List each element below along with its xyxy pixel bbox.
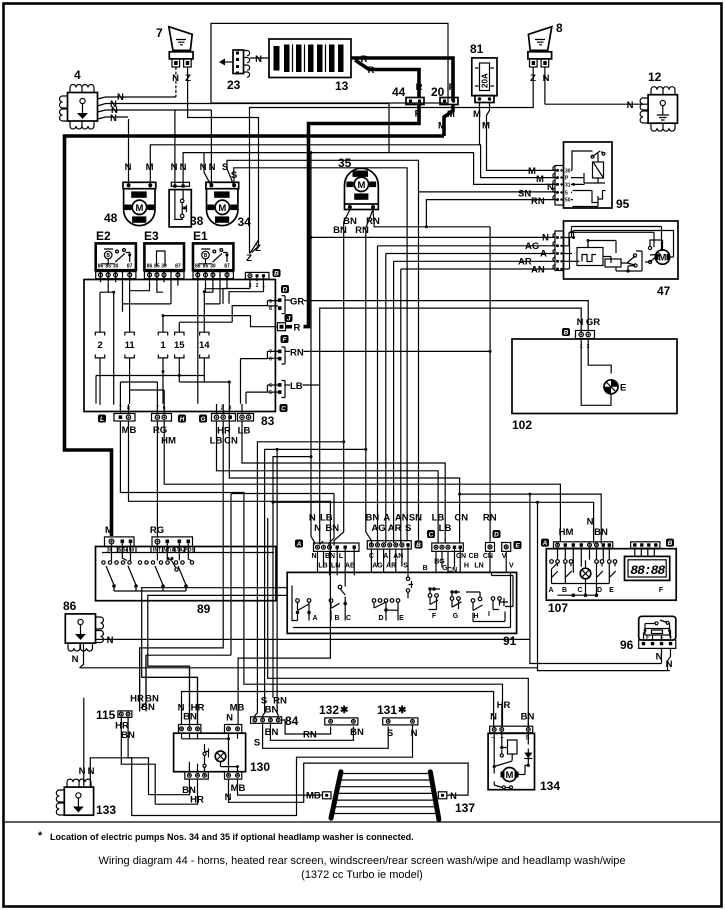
svg-text:RN: RN bbox=[531, 196, 545, 207]
svg-text:HM: HM bbox=[559, 527, 574, 538]
107 internals bbox=[550, 547, 617, 596]
svg-text:N: N bbox=[171, 162, 178, 173]
svg-text:RN: RN bbox=[355, 225, 369, 236]
91 connector C bbox=[427, 530, 463, 551]
91 connector D bbox=[486, 530, 501, 551]
svg-text:31: 31 bbox=[565, 183, 571, 189]
svg-text:S: S bbox=[403, 563, 408, 570]
svg-text:M: M bbox=[482, 121, 490, 132]
svg-text:34: 34 bbox=[238, 215, 252, 229]
wire A to 47 bbox=[386, 253, 555, 255]
wire BN-107 branch from CN vertical bbox=[460, 494, 602, 543]
svg-text:4: 4 bbox=[74, 68, 81, 82]
switch/clock unit 107 bbox=[541, 539, 676, 615]
wire RN-84 up x278.5 to y473? bbox=[277, 449, 278, 717]
svg-text:115: 115 bbox=[96, 708, 116, 722]
fuse box 83 bbox=[84, 280, 275, 429]
svg-text:CN: CN bbox=[454, 513, 468, 524]
svg-text:C: C bbox=[577, 587, 582, 594]
svg-text:N: N bbox=[311, 553, 316, 560]
svg-text:B: B bbox=[564, 329, 569, 336]
svg-text:AB: AB bbox=[345, 563, 355, 570]
pump motor 34 bbox=[206, 182, 251, 229]
svg-text:N: N bbox=[72, 654, 79, 665]
wire M from 81 left pin down to M bus bbox=[479, 103, 481, 145]
svg-text:CN: CN bbox=[456, 553, 466, 560]
svg-text:M: M bbox=[438, 121, 446, 132]
svg-text:S: S bbox=[222, 162, 228, 173]
svg-text:B: B bbox=[423, 565, 428, 572]
wire N from 86 bottom to x537.5 down (96 feed) bbox=[80, 643, 670, 671]
svg-text:R: R bbox=[416, 82, 423, 93]
wire horn7 Z down, right, down to connector B of 83 bbox=[188, 67, 259, 254]
svg-text:5: 5 bbox=[565, 191, 568, 197]
svg-text:48: 48 bbox=[104, 211, 118, 225]
svg-text:E: E bbox=[399, 615, 404, 622]
svg-text:A: A bbox=[542, 540, 548, 547]
svg-text:N: N bbox=[200, 162, 207, 173]
svg-text:86: 86 bbox=[195, 264, 201, 270]
svg-text:7: 7 bbox=[156, 26, 163, 40]
svg-text:M: M bbox=[135, 203, 143, 214]
svg-text:LB: LB bbox=[439, 523, 452, 534]
wire BN-134 bus y678.3 bbox=[268, 518, 529, 726]
fuse 14 bbox=[199, 292, 210, 382]
wire S bus y160.3 from 34 S pin right then down to 91-B S bbox=[227, 160, 556, 540]
headlamp washer pump 134 bbox=[488, 726, 560, 793]
svg-text:A: A bbox=[540, 249, 547, 260]
wire RN to 91-D bbox=[304, 351, 491, 541]
svg-text:J: J bbox=[287, 315, 291, 322]
svg-text:M: M bbox=[659, 253, 667, 264]
svg-text:B: B bbox=[562, 587, 567, 594]
svg-text:S: S bbox=[525, 736, 529, 742]
relay E1 bbox=[193, 229, 233, 270]
svg-text:6: 6 bbox=[269, 357, 272, 363]
svg-text:D: D bbox=[378, 615, 383, 622]
icon B bbox=[273, 269, 281, 277]
wire RN from 35 right pin to 95 pin 50 bbox=[373, 210, 490, 227]
verticals AG A AR AN down to 91-B bbox=[378, 246, 401, 543]
svg-text:M: M bbox=[506, 770, 514, 781]
svg-text:91: 91 bbox=[503, 634, 517, 648]
svg-text:RG: RG bbox=[153, 425, 167, 436]
thick bus battery feed: y136 from x64 to x444, left end down bbox=[65, 136, 445, 536]
icon F + RN pins (7,6) bbox=[269, 335, 290, 364]
svg-text:A: A bbox=[383, 513, 390, 524]
LB pins (6,5) + icon C bbox=[269, 381, 290, 413]
wire MB from 130 bottom to 137 bbox=[238, 779, 323, 795]
wire RG from 83 down to 89 bbox=[156, 421, 158, 537]
svg-text:133: 133 bbox=[96, 803, 116, 817]
svg-text:107: 107 bbox=[548, 601, 568, 615]
caption separator line bbox=[5, 821, 720, 823]
wire horn8 N down to N bus of 12 bbox=[544, 67, 546, 104]
91 connector B bbox=[367, 541, 422, 550]
svg-text:81: 81 bbox=[470, 42, 484, 56]
svg-text:D: D bbox=[283, 286, 288, 293]
svg-text:✱: ✱ bbox=[340, 705, 349, 716]
svg-text:132: 132 bbox=[319, 703, 339, 717]
heated rear window switch 130 bbox=[174, 725, 271, 780]
svg-text:+: + bbox=[669, 635, 673, 641]
svg-text:LN: LN bbox=[474, 563, 483, 570]
relay sockets on top edge of 83 bbox=[96, 272, 234, 279]
wire BN-35 to 84: left at y441.8 down x257.4 bbox=[255, 442, 344, 717]
svg-text:CN: CN bbox=[483, 553, 493, 560]
connector 23 bbox=[219, 50, 250, 92]
svg-text:85: 85 bbox=[203, 264, 209, 270]
svg-text:RN: RN bbox=[303, 730, 317, 741]
wire N loop from 130 bottom around to 137 right pin bbox=[229, 763, 469, 802]
svg-text:H: H bbox=[180, 416, 185, 423]
svg-text:102: 102 bbox=[512, 418, 532, 432]
svg-text:S: S bbox=[254, 738, 260, 749]
staircase to 115: HR bbox=[139, 653, 141, 712]
svg-text:S: S bbox=[231, 170, 237, 181]
connector B of 83 bbox=[245, 272, 269, 289]
svg-text:47: 47 bbox=[657, 284, 671, 298]
svg-text:E: E bbox=[609, 587, 614, 594]
svg-text:30: 30 bbox=[113, 264, 119, 270]
svg-text:CB: CB bbox=[469, 553, 479, 560]
svg-text:GR: GR bbox=[586, 317, 600, 328]
svg-text:50: 50 bbox=[129, 548, 135, 554]
svg-text:A: A bbox=[296, 541, 302, 548]
bottom connector L of 83 bbox=[98, 404, 135, 423]
wire RN from 35 right pin down to 91-B BN pin bbox=[366, 210, 373, 546]
svg-text:B: B bbox=[274, 270, 279, 277]
svg-text:130: 130 bbox=[250, 760, 270, 774]
svg-text:F: F bbox=[432, 613, 437, 620]
lamp unit 102 bbox=[512, 317, 677, 432]
thick wire R from 13 to connector 44 bbox=[355, 60, 419, 98]
svg-text:2: 2 bbox=[97, 340, 102, 351]
fuse box 13 bbox=[269, 39, 351, 93]
wire BN-115/91A: H493.5 from x231 to V334 bbox=[231, 493, 334, 495]
wire N to 47 pin1 bbox=[311, 236, 556, 238]
svg-text:N: N bbox=[656, 652, 663, 663]
svg-text:F: F bbox=[646, 635, 650, 641]
relay interrupter 89 bbox=[96, 537, 277, 616]
fuse 81 bbox=[470, 42, 497, 103]
connector 44 bbox=[392, 85, 424, 105]
thick wire R below 44 down to thick bus bbox=[417, 105, 421, 123]
107 digital clock bbox=[625, 548, 670, 594]
svg-text:CN: CN bbox=[224, 436, 238, 447]
wire S from 84 down to 131 left pin bbox=[263, 723, 389, 748]
switch 38 bbox=[169, 182, 204, 228]
svg-text:D: D bbox=[597, 587, 602, 594]
svg-text:✱: ✱ bbox=[398, 705, 407, 716]
svg-text:50: 50 bbox=[565, 198, 571, 204]
svg-text:1: 1 bbox=[160, 340, 166, 351]
svg-text:L: L bbox=[339, 553, 344, 560]
wire N from bus y110 down at x211.4 to 34 left pin bbox=[210, 110, 212, 186]
svg-text:R: R bbox=[294, 323, 301, 334]
svg-text:AN: AN bbox=[531, 265, 545, 276]
svg-text:8: 8 bbox=[269, 306, 272, 312]
svg-text:M: M bbox=[105, 525, 113, 536]
svg-text:96: 96 bbox=[620, 638, 634, 652]
svg-text:N: N bbox=[117, 92, 124, 103]
wire MB from 83: down, right, down to 130 MB top bbox=[129, 421, 331, 725]
wire N from 12 to horn 8 bbox=[545, 103, 648, 105]
svg-text:SN: SN bbox=[518, 189, 531, 200]
ground connector 4 bbox=[60, 68, 98, 129]
wire N bus to 130/134: y691.5 bbox=[182, 692, 494, 727]
svg-text:N: N bbox=[209, 162, 216, 173]
svg-text:87: 87 bbox=[175, 264, 181, 270]
svg-text:5: 5 bbox=[269, 390, 272, 396]
svg-text:N: N bbox=[411, 728, 418, 739]
svg-text:HR: HR bbox=[190, 795, 204, 806]
connector 132 bbox=[319, 703, 358, 725]
wire AN to 47 bbox=[401, 268, 555, 270]
svg-text:BN: BN bbox=[594, 527, 608, 538]
svg-text:BN: BN bbox=[333, 225, 347, 236]
svg-text:Z: Z bbox=[246, 253, 252, 264]
svg-text:N: N bbox=[110, 113, 117, 124]
svg-text:B: B bbox=[668, 540, 673, 547]
svg-text:M: M bbox=[536, 174, 544, 185]
svg-text:RN: RN bbox=[290, 348, 304, 359]
wire HR from 83 straight down then staircase to 115 bbox=[140, 421, 224, 711]
ground connector 133 bbox=[56, 779, 116, 817]
svg-text:N: N bbox=[125, 162, 132, 173]
svg-text:BN: BN bbox=[325, 523, 339, 534]
svg-text:N: N bbox=[450, 791, 457, 802]
svg-text:85: 85 bbox=[154, 264, 160, 270]
enclosing box around 23 and 13 bbox=[211, 23, 448, 103]
wire LB2 from 83 down right down to 91-C bbox=[242, 421, 445, 544]
wire M from 81 right pin down to 95 pin 30 bbox=[487, 103, 557, 171]
svg-text:I: I bbox=[488, 611, 490, 618]
svg-text:AG: AG bbox=[525, 241, 539, 252]
svg-text:C: C bbox=[346, 615, 351, 622]
svg-text:15: 15 bbox=[174, 340, 185, 351]
svg-text:M: M bbox=[447, 109, 455, 120]
91 connector E bbox=[502, 541, 522, 551]
svg-text:13: 13 bbox=[335, 79, 349, 93]
svg-text:N: N bbox=[226, 713, 233, 724]
svg-text:A: A bbox=[548, 587, 553, 594]
svg-text:R: R bbox=[368, 65, 375, 76]
svg-text:137: 137 bbox=[455, 801, 475, 815]
pump motor 35 bbox=[338, 156, 378, 210]
svg-text:GR: GR bbox=[290, 297, 304, 308]
icon G bbox=[199, 415, 207, 423]
svg-text:23: 23 bbox=[227, 78, 241, 92]
svg-text:LB: LB bbox=[320, 513, 333, 524]
wires from 4 (N x4) bbox=[98, 92, 390, 124]
svg-text:M: M bbox=[146, 162, 154, 173]
wiper motor unit 47 bbox=[553, 221, 678, 298]
svg-text:S: S bbox=[387, 728, 393, 739]
wire S bus y167.8 from 34 to x497.5 down right to 95 pin 5 (SN) bbox=[234, 168, 407, 541]
svg-text:N: N bbox=[309, 513, 316, 524]
wire from 83 L pin7: down right down to y684.2 bus to 134 HR bbox=[120, 421, 502, 726]
svg-text:RN: RN bbox=[483, 513, 497, 524]
svg-text:−: − bbox=[660, 635, 664, 641]
wire RN-35 to 84: down x365.8, left y449.4, down x264.6 bbox=[263, 449, 366, 717]
115 bottom wires joining 130 left wires bbox=[121, 717, 197, 804]
svg-text:BN: BN bbox=[350, 727, 364, 738]
svg-text:8: 8 bbox=[556, 21, 563, 35]
connector 84 bbox=[251, 714, 299, 728]
svg-text:Wiring diagram 44 - horns, hea: Wiring diagram 44 - horns, heated rear s… bbox=[98, 855, 625, 867]
svg-text:30: 30 bbox=[161, 264, 167, 270]
ground connector 12 bbox=[640, 70, 677, 131]
svg-text:S: S bbox=[405, 523, 411, 534]
wire AR to 47 bbox=[394, 260, 555, 262]
wire x319.7 down to 91-A (from 102-N corner) bbox=[320, 541, 324, 545]
wire N net: V311 H456.6 V273 with branches to 107-N and 133-N bbox=[311, 153, 315, 545]
wire N vertical x389 from y103.5 down to N bus bbox=[388, 104, 390, 153]
svg-text:N: N bbox=[627, 100, 634, 111]
ground connector 86 bbox=[63, 599, 104, 651]
svg-text:G: G bbox=[453, 613, 459, 620]
svg-text:E2: E2 bbox=[96, 229, 111, 243]
svg-text:N: N bbox=[542, 233, 549, 244]
svg-text:*: * bbox=[38, 830, 43, 842]
svg-text:G: G bbox=[200, 416, 205, 423]
wire HM from 83: down, right, down to 107-A bbox=[164, 421, 560, 542]
svg-text:E: E bbox=[515, 542, 520, 549]
svg-text:88:88: 88:88 bbox=[630, 563, 665, 578]
svg-text:LB: LB bbox=[238, 426, 251, 437]
svg-text:87: 87 bbox=[127, 264, 133, 270]
svg-text:86: 86 bbox=[147, 264, 153, 270]
svg-text:POS: POS bbox=[184, 548, 195, 554]
fuse 11 bbox=[125, 282, 136, 404]
thick wire R from 13 right to connector 20 bbox=[351, 58, 453, 101]
wire vertical x537.5 from N bus down to 86-N bus bbox=[537, 502, 539, 668]
svg-text:B: B bbox=[204, 253, 208, 259]
wire N from 131 zigzag to 133 bbox=[90, 725, 412, 816]
svg-text:2: 2 bbox=[256, 283, 259, 289]
svg-text:84: 84 bbox=[285, 714, 299, 728]
svg-text:RG: RG bbox=[150, 525, 164, 536]
wire horn8 Z down, left to x249.5 and down to B connector bbox=[250, 67, 534, 254]
pump motor 48 bbox=[104, 182, 156, 225]
svg-text:C: C bbox=[281, 405, 286, 412]
svg-text:C: C bbox=[429, 531, 434, 538]
svg-text:44: 44 bbox=[392, 85, 406, 99]
130 top BN/HR feed wires bbox=[148, 666, 190, 726]
thick wire M below 20 joining thick bus bbox=[444, 105, 453, 137]
svg-text:M: M bbox=[473, 109, 481, 120]
wire N from N-bus y152.6 down at x204 diag to 34 pin bbox=[204, 153, 211, 186]
horn 8 bbox=[528, 21, 563, 84]
svg-text:BN: BN bbox=[521, 712, 535, 723]
wire corner x319.7 y308 right to 102 B pin1 and down to 91-A bbox=[320, 308, 582, 544]
bottom connector G pins (2,3) HR LB CN bbox=[212, 404, 236, 421]
svg-text:86: 86 bbox=[98, 264, 104, 270]
svg-text:N: N bbox=[107, 635, 114, 646]
svg-text:AR: AR bbox=[386, 563, 396, 570]
fuse 15 bbox=[174, 322, 185, 382]
91 internal switches bbox=[318, 547, 507, 587]
svg-text:30: 30 bbox=[210, 264, 216, 270]
svg-text:AG: AG bbox=[371, 523, 385, 534]
svg-text:134: 134 bbox=[540, 779, 560, 793]
svg-text:SN: SN bbox=[409, 513, 422, 524]
wire LB right then down bbox=[303, 384, 320, 386]
wire N x128.5 down to 48 left pin bbox=[128, 119, 130, 185]
svg-text:N: N bbox=[255, 54, 262, 65]
svg-text:A: A bbox=[312, 615, 317, 622]
svg-text:89: 89 bbox=[197, 602, 211, 616]
svg-text:86: 86 bbox=[63, 599, 77, 613]
fuse 2 bbox=[95, 292, 104, 405]
wires N from 96 pins down to buses bbox=[661, 648, 663, 663]
svg-text:87: 87 bbox=[224, 264, 230, 270]
svg-text:30: 30 bbox=[565, 169, 571, 175]
svg-text:LB: LB bbox=[432, 513, 445, 524]
svg-text:N: N bbox=[587, 517, 594, 528]
83 right edge pins GR (9,8) with icon D bbox=[269, 285, 290, 314]
bottom connector RG/HM bbox=[152, 404, 172, 421]
svg-text:LB: LB bbox=[290, 381, 303, 392]
svg-text:Location of electric pumps Nos: Location of electric pumps Nos. 34 and 3… bbox=[50, 832, 414, 842]
svg-text:N: N bbox=[314, 523, 321, 534]
relay unit 95 bbox=[553, 142, 630, 211]
svg-text:95: 95 bbox=[616, 197, 630, 211]
wires into 134 top bbox=[494, 704, 528, 727]
wire vertical x529.9 from BN bus down to N bus (96 feed) bbox=[529, 494, 531, 639]
svg-text:AR: AR bbox=[388, 523, 402, 534]
svg-text:H: H bbox=[473, 613, 478, 620]
connector 20 bbox=[431, 85, 458, 105]
svg-text:M: M bbox=[528, 166, 536, 177]
svg-text:7: 7 bbox=[269, 350, 272, 356]
svg-text:AR: AR bbox=[518, 257, 532, 268]
svg-text:N: N bbox=[543, 73, 550, 84]
connector 115 bbox=[96, 708, 132, 722]
wire CN from 83 down right down to 91-C bbox=[229, 415, 459, 543]
svg-text:131: 131 bbox=[377, 703, 397, 717]
svg-text:HM: HM bbox=[161, 436, 176, 447]
svg-text:D: D bbox=[494, 531, 499, 538]
wire AG to 47 bbox=[378, 245, 556, 247]
svg-text:M: M bbox=[218, 203, 226, 214]
svg-text:E3: E3 bbox=[144, 229, 159, 243]
wire BN from 35 left pin down to 91-A bbox=[334, 210, 350, 546]
svg-text:6: 6 bbox=[269, 383, 272, 389]
svg-text:M: M bbox=[357, 180, 365, 191]
svg-text:B: B bbox=[106, 253, 110, 259]
svg-text:14: 14 bbox=[199, 340, 210, 351]
wire LB1 from 83 down right down to 91-C bbox=[217, 421, 439, 544]
svg-text:BN: BN bbox=[141, 702, 155, 713]
svg-text:E1: E1 bbox=[193, 229, 208, 243]
svg-text:LN: LN bbox=[331, 563, 340, 570]
svg-text:R: R bbox=[415, 109, 422, 120]
svg-text:HR: HR bbox=[497, 700, 511, 711]
svg-text:N: N bbox=[88, 766, 95, 777]
svg-text:N: N bbox=[490, 712, 497, 723]
91 connector A bbox=[295, 540, 359, 552]
svg-text:BN: BN bbox=[366, 513, 380, 524]
steering column switch unit 91 bbox=[287, 572, 516, 648]
wire 133-N1 from bus y697.7 bbox=[83, 698, 85, 787]
svg-text:N: N bbox=[577, 317, 584, 328]
heated rear screen 137 bbox=[323, 772, 476, 820]
svg-text:MB: MB bbox=[306, 791, 321, 802]
wire 23 to fuse box 13 (N) bbox=[250, 57, 269, 59]
svg-text:Z: Z bbox=[255, 243, 261, 254]
